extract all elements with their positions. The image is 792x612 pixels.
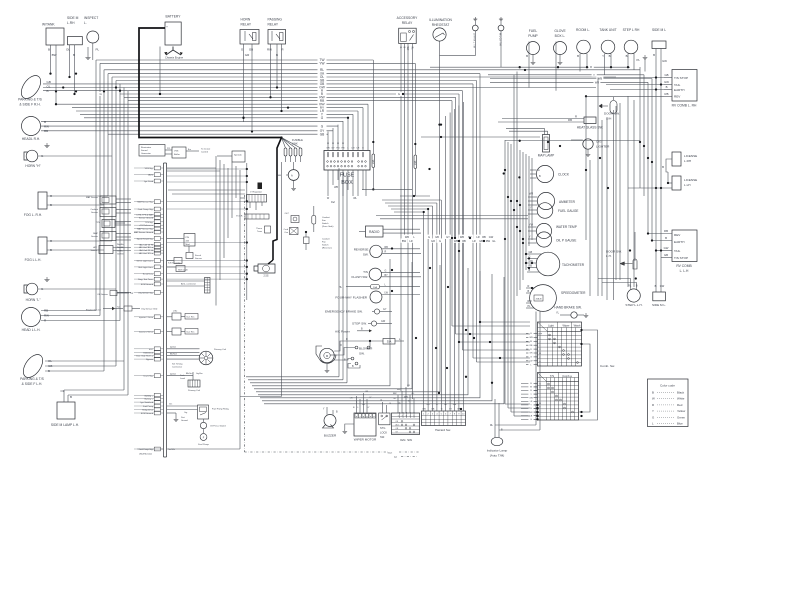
svg-text:Black: Black (677, 391, 685, 395)
side marker lamp RH top (66, 16, 82, 95)
svg-text:STEP L RH: STEP L RH (623, 28, 640, 32)
svg-text:SIDE M L.: SIDE M L. (652, 303, 666, 307)
wire top bus (41, 58, 640, 137)
junction dots left staircase (55, 72, 121, 92)
svg-text:Chassis Engine: Chassis Engine (165, 56, 184, 60)
svg-text:20A: 20A (372, 159, 375, 164)
svg-text:B: B (652, 391, 654, 395)
svg-text:FOG L L.H.: FOG L L.H. (25, 258, 42, 262)
svg-text:RB: RB (385, 246, 389, 249)
svg-text:Indicator Lamp: Indicator Lamp (487, 449, 508, 453)
svg-text:W: W (530, 341, 532, 343)
svg-text:R: R (575, 115, 577, 119)
svg-text:Blk/Grn: Blk/Grn (186, 372, 192, 375)
wire fuse box bottom pins (327, 170, 366, 204)
svg-text:G: G (398, 92, 400, 96)
svg-text:Inj 1 Res: Inj 1 Res (187, 317, 195, 319)
svg-text:GmWht: GmWht (117, 253, 124, 256)
svg-text:SIDE M: SIDE M (67, 16, 79, 20)
blower fuse 30A (369, 338, 404, 348)
svg-text:SW.: SW. (359, 352, 365, 356)
svg-text:Fuel Pump Relay: Fuel Pump Relay (212, 409, 230, 411)
svg-text:Wiper: Wiper (562, 324, 569, 328)
svg-text:2.5S: 2.5S (264, 275, 269, 278)
svg-text:Grn: Grn (169, 403, 172, 406)
svg-text:G: G (538, 169, 540, 172)
svg-text:W: W (652, 397, 655, 401)
svg-text:LR: LR (409, 239, 412, 243)
svg-text:REV: REV (674, 95, 681, 99)
wire thick starter feed (273, 138, 282, 261)
svg-text:GW: GW (664, 80, 669, 84)
svg-text:CTRL TPS & MAT: CTRL TPS & MAT (136, 214, 153, 217)
svg-text:GW: GW (660, 284, 665, 288)
svg-text:WATER TEMP: WATER TEMP (556, 225, 577, 229)
combination switch table lower (530, 373, 579, 421)
knock module (167, 234, 195, 253)
svg-text:LICENSE: LICENSE (684, 178, 697, 182)
svg-text:B: B (662, 165, 664, 169)
svg-text:LICENSE: LICENSE (684, 154, 697, 158)
svg-text:Lead: Lead (180, 378, 186, 380)
svg-text:RB: RB (664, 229, 668, 233)
svg-text:& SIDE F L.H.: & SIDE F L.H. (22, 382, 43, 386)
svg-text:GY: GY (449, 409, 453, 411)
horn H (24, 143, 112, 168)
svg-text:HEADL R.H.: HEADL R.H. (22, 137, 40, 141)
svg-text:Dist. Gnd. Ref. Lo: Dist. Gnd. Ref. Lo (136, 355, 153, 358)
oil pressure sender top small (440, 17, 479, 56)
svg-text:FLASH SW.: FLASH SW. (351, 275, 368, 279)
accessory relay (397, 16, 418, 44)
passing relay (267, 18, 285, 113)
blower motor (316, 346, 336, 372)
svg-text:GY: GY (446, 235, 450, 239)
svg-text:FOUR-WAY FLASHER: FOUR-WAY FLASHER (335, 295, 367, 299)
svg-text:Org: Org (184, 411, 187, 414)
svg-text:Knock: Knock (195, 255, 202, 257)
svg-text:V. Regulator: V. Regulator (250, 191, 262, 194)
wire accessory columns (399, 44, 413, 400)
AC power lead (335, 327, 372, 333)
reverse switch (354, 245, 421, 257)
svg-text:Color code: Color code (660, 384, 675, 388)
svg-text:IGN. SW: IGN. SW (400, 438, 412, 442)
svg-text:GB: GB (479, 239, 483, 243)
svg-text:SIDE M L: SIDE M L (652, 28, 666, 32)
svg-text:Engine Ground: Engine Ground (86, 308, 101, 311)
svg-text:Cool. Temp. Sig.: Cool. Temp. Sig. (138, 209, 154, 211)
svg-text:OIL P GAUGE: OIL P GAUGE (556, 239, 576, 243)
room lamp (576, 28, 590, 72)
ECM ground symbol (167, 413, 188, 422)
svg-text:Wash: Wash (574, 324, 581, 328)
turn signal flasher switch (351, 268, 421, 280)
svg-text:Illuminator: Illuminator (141, 146, 151, 149)
svg-text:BLOWER: BLOWER (359, 347, 373, 351)
svg-text:Sound: Sound (141, 150, 148, 152)
svg-text:(Wall Monitor): (Wall Monitor) (139, 453, 152, 456)
svg-text:LR: LR (357, 148, 360, 150)
svg-text:FUSIBLE: FUSIBLE (292, 138, 303, 142)
illumination rheostat (429, 18, 452, 237)
svg-text:RW: RW (44, 124, 49, 128)
svg-text:GB: GB (529, 251, 533, 254)
svg-text:LOCK: LOCK (380, 431, 387, 435)
wire comb switch lower feeders (246, 259, 504, 404)
svg-text:S/PARK L T/M: S/PARK L T/M (473, 33, 476, 48)
fuel pump top (526, 29, 539, 88)
svg-text:RB: RB (462, 239, 466, 243)
lamp parking/ts/side front RH (17, 72, 50, 106)
svg-text:GB: GB (249, 48, 253, 52)
TES box (258, 183, 263, 190)
svg-text:TAIL: TAIL (674, 83, 681, 87)
svg-text:HAND BRAKE SW.: HAND BRAKE SW. (554, 306, 582, 310)
svg-text:Primary Coil: Primary Coil (188, 389, 200, 392)
svg-text:G: G (100, 92, 102, 96)
svg-text:Shift Light Cont.: Shift Light Cont. (138, 266, 153, 269)
svg-text:A/C Power: A/C Power (335, 330, 350, 334)
svg-text:B: B (609, 54, 611, 58)
side marker lamp top right (652, 28, 667, 292)
tachometer (527, 251, 585, 276)
svg-text:RW: RW (267, 48, 272, 52)
set timing connector (172, 363, 186, 381)
svg-text:YW: YW (319, 62, 324, 66)
svg-text:RW: RW (528, 300, 533, 303)
svg-text:WR: WR (529, 193, 533, 196)
ECM pin boxes and labels (134, 166, 164, 455)
svg-text:Relay Drive: Relay Drive (142, 409, 154, 412)
svg-text:BW: BW (52, 53, 57, 57)
svg-text:L.: L. (84, 21, 87, 25)
svg-text:DOOR SW.: DOOR SW. (604, 112, 620, 116)
wire battery thick feed (139, 28, 282, 138)
oxygen sensor (97, 291, 133, 296)
svg-text:TACHOMETER: TACHOMETER (562, 263, 585, 267)
svg-text:Sensor: Sensor (91, 235, 98, 238)
svg-text:RL: RL (628, 283, 632, 287)
wire ECM collector vertical (167, 163, 248, 300)
svg-text:Fuel Pump Sig.: Fuel Pump Sig. (139, 449, 154, 451)
svg-text:Sensor Ground: Sensor Ground (139, 217, 154, 220)
svg-text:Oxy Sensor Sig.: Oxy Sensor Sig. (138, 291, 153, 294)
svg-text:B: B (47, 89, 49, 93)
fuel pump sig wire (137, 448, 240, 451)
ammeter (528, 192, 576, 209)
svg-text:RB: RB (568, 118, 572, 122)
svg-text:RELAY: RELAY (268, 23, 279, 27)
svg-text:STOP SW.: STOP SW. (352, 322, 367, 326)
door switch LH (606, 232, 637, 269)
svg-text:(Reverse): (Reverse) (322, 247, 332, 250)
wire speedometer drop (495, 312, 540, 431)
svg-text:GLOVE: GLOVE (554, 29, 566, 33)
fusible link 20A fuse right of fuse box (372, 60, 375, 191)
svg-text:REV: REV (674, 233, 681, 237)
svg-text:Crank Sig.: Crank Sig. (143, 375, 153, 378)
svg-text:L.RH: L.RH (684, 159, 691, 163)
svg-text:WB: WB (334, 186, 338, 189)
svg-text:GB: GB (431, 409, 435, 411)
svg-text:RADIO: RADIO (369, 230, 380, 234)
svg-text:L.RH: L.RH (67, 21, 75, 25)
oil pressure gauge (528, 232, 576, 247)
svg-text:Brn: Brn (188, 148, 191, 151)
svg-text:Dist.: Dist. (181, 416, 185, 419)
svg-text:B: B (50, 248, 52, 252)
wire center columns from bus (382, 102, 463, 411)
svg-text:SW.: SW. (363, 252, 369, 256)
buzzer (323, 407, 339, 438)
svg-text:EARTH: EARTH (674, 88, 684, 92)
svg-text:VSS Sig.: VSS Sig. (145, 168, 154, 170)
svg-text:GL: GL (492, 239, 496, 243)
svg-text:IAC Coil "A" Hi: IAC Coil "A" Hi (139, 243, 153, 246)
svg-text:T/S STOP: T/S STOP (674, 256, 688, 260)
VSS buffer (165, 147, 211, 158)
speedometer (526, 285, 586, 312)
svg-text:IAC Coil "B" Lo: IAC Coil "B" Lo (139, 252, 154, 255)
svg-text:OL: OL (61, 389, 65, 393)
svg-text:PG: PG (336, 148, 339, 150)
svg-text:S.E.S. Light Cont.: S.E.S. Light Cont. (136, 260, 153, 263)
svg-text:MAP LAMP: MAP LAMP (538, 154, 554, 158)
svg-text:White: White (677, 397, 685, 401)
svg-text:W/TANK: W/TANK (42, 23, 55, 27)
svg-text:WR: WR (595, 80, 599, 84)
svg-text:MAP: MAP (93, 232, 98, 235)
horn L (24, 277, 116, 302)
svg-text:GW: GW (664, 246, 669, 250)
starter motor (254, 260, 275, 278)
svg-text:EARTH: EARTH (674, 240, 684, 244)
shift light (167, 266, 188, 272)
svg-text:Bypass: Bypass (146, 359, 153, 361)
svg-text:MAT Sensor Sig.: MAT Sensor Sig. (137, 201, 153, 204)
battery (165, 15, 181, 46)
svg-text:Set Timing: Set Timing (172, 363, 183, 366)
svg-text:Y: Y (593, 73, 595, 77)
water temp gauge (528, 223, 577, 238)
svg-text:GY: GY (383, 308, 387, 311)
svg-text:FUEL GAUGE: FUEL GAUGE (558, 209, 578, 213)
svg-text:HEAD L L.H.: HEAD L L.H. (22, 328, 41, 332)
fuel pump relay (167, 403, 230, 420)
wire gauge-to-comb verticals (505, 300, 530, 416)
svg-text:Control: Control (201, 151, 209, 154)
svg-text:B: B (276, 53, 278, 57)
svg-text:Buffer: Buffer (174, 153, 180, 156)
svg-text:L.LH: L.LH (684, 183, 691, 187)
EGR connector (236, 214, 269, 219)
svg-text:W/L CD T/M: W/L CD T/M (498, 33, 500, 46)
radio (359, 226, 421, 237)
svg-text:Ign. Feed: Ign. Feed (144, 181, 154, 183)
MAT sensor (86, 196, 131, 204)
wire mid horizontals (362, 65, 652, 219)
svg-text:INSPECT: INSPECT (84, 16, 98, 20)
coolant sensor (90, 208, 131, 217)
svg-text:AMMETER: AMMETER (559, 200, 576, 204)
wire label row near hazard (401, 235, 498, 243)
alternator (278, 162, 299, 190)
color code legend (648, 379, 689, 427)
indicator lamp auto TM (487, 399, 508, 458)
svg-text:VSS: VSS (174, 151, 179, 153)
blower switch (334, 338, 383, 368)
svg-text:ACCESSORY: ACCESSORY (397, 16, 418, 20)
svg-text:G: G (439, 239, 441, 243)
speedo pickup (217, 151, 245, 162)
svg-text:20A: 20A (373, 286, 377, 289)
svg-text:GB: GB (48, 364, 52, 368)
svg-text:OE Sensor: OE Sensor (97, 293, 108, 296)
svg-text:Shift Light: Shift Light (178, 269, 188, 272)
combination switch table upper (526, 322, 582, 367)
svg-text:GB: GB (664, 73, 668, 77)
license lamp RH (662, 152, 697, 172)
coolant fan switch face side (312, 206, 334, 232)
thermal transmitter (256, 226, 270, 233)
svg-text:Trans: Trans (257, 231, 262, 233)
svg-text:B: B (50, 203, 52, 207)
heat glass switch (498, 115, 603, 130)
svg-text:STEP L.L.H.: STEP L.L.H. (625, 303, 642, 307)
svg-text:RELAY: RELAY (241, 23, 252, 27)
svg-text:GR: GR (431, 239, 435, 243)
fog lamp LH (25, 237, 112, 262)
svg-text:Hazard Sw.: Hazard Sw. (435, 428, 451, 432)
ALDL connector (167, 278, 210, 294)
step lamp LH bottom right (598, 277, 643, 306)
svg-text:R: R (652, 403, 654, 407)
svg-text:TPS Sig.: TPS Sig. (145, 222, 154, 224)
svg-text:VATS: VATS (148, 174, 154, 177)
crank signal wire (167, 373, 193, 376)
fuel pump bottom (198, 434, 209, 446)
svg-text:Fuel Pump: Fuel Pump (198, 444, 209, 446)
wire fuse box top pins (326, 104, 368, 150)
svg-text:B: B (655, 284, 657, 288)
fuse 20A flasher row (339, 283, 420, 289)
svg-text:SPEEDOMETER: SPEEDOMETER (561, 291, 586, 295)
svg-text:A/CL connector: A/CL connector (181, 283, 196, 286)
svg-text:PARKING & T/S: PARKING & T/S (18, 98, 42, 102)
svg-text:B: B (48, 369, 50, 373)
svg-text:Yellow: Yellow (677, 409, 686, 413)
TPS sensor (96, 220, 131, 228)
svg-text:LW: LW (530, 361, 533, 363)
svg-text:MAP Sensor Sig.: MAP Sensor Sig. (137, 228, 153, 231)
svg-text:R: R (528, 285, 530, 288)
junction dots scatter (159, 69, 653, 417)
svg-text:RELAY: RELAY (402, 21, 413, 25)
stop switch (352, 320, 392, 326)
svg-text:YW: YW (529, 224, 534, 227)
svg-text:+5V Reference: +5V Reference (139, 224, 154, 227)
svg-text:A: A (291, 174, 293, 178)
svg-text:TAIL: TAIL (674, 249, 681, 253)
svg-text:REVERSE: REVERSE (354, 247, 369, 251)
svg-text:PPL: PPL (167, 148, 170, 150)
coolant fan switch reverse (304, 231, 332, 250)
voltage regulator (247, 191, 267, 211)
svg-text:Coolant: Coolant (322, 216, 330, 219)
svg-text:BW: BW (402, 239, 407, 243)
svg-text:WIPER MOTOR: WIPER MOTOR (354, 438, 377, 442)
svg-text:ROOM L.: ROOM L. (576, 28, 590, 32)
svg-text:CLOCK: CLOCK (558, 173, 570, 177)
svg-text:Primary Coil: Primary Coil (214, 348, 226, 351)
svg-text:Coolant: Coolant (90, 208, 98, 211)
rear combination lamp RH (664, 70, 697, 108)
svg-text:TW: TW (130, 293, 133, 295)
lamp parking/ts/side front LH (19, 351, 124, 386)
svg-text:Ign. Switched: Ign. Switched (141, 401, 154, 404)
wire left vertical feeders (96, 60, 128, 395)
svg-text:B: B (636, 283, 638, 287)
ECM connector rail (164, 163, 167, 457)
svg-text:Generator: Generator (141, 152, 151, 155)
ignition coil (186, 372, 203, 392)
svg-text:Oxy Sensor Grid: Oxy Sensor Grid (141, 308, 158, 311)
svg-text:+: + (166, 25, 168, 29)
svg-text:B: B (577, 54, 579, 58)
svg-text:Switch: Switch (322, 222, 329, 225)
svg-text:SIDE M LAMP L.H.: SIDE M LAMP L.H. (51, 423, 79, 427)
fusible link cluster (280, 136, 303, 162)
svg-text:G: G (399, 47, 401, 49)
svg-text:BATTERY: BATTERY (166, 15, 182, 19)
wire door harness verticals (586, 78, 614, 301)
washer tank W/TANK (42, 23, 64, 106)
wire comb lower table stubs (521, 381, 539, 421)
svg-text:Reference: Reference (143, 351, 153, 354)
illuminator sound generator (139, 145, 165, 157)
svg-text:WovBlk: WovBlk (117, 247, 123, 249)
svg-text:LR: LR (472, 239, 475, 243)
svg-text:FUEL: FUEL (529, 29, 538, 33)
svg-text:B: B (73, 53, 75, 57)
svg-text:B: B (666, 85, 668, 89)
cigarette lighter (571, 139, 610, 156)
svg-text:30A: 30A (387, 340, 392, 344)
wire center columns comb side (452, 74, 530, 362)
svg-text:B: B (48, 48, 50, 52)
svg-text:GY: GY (331, 148, 335, 150)
svg-text:Coolant: Coolant (322, 238, 330, 241)
svg-text:GR: GR (326, 148, 330, 150)
svg-text:HORN "L": HORN "L" (26, 298, 42, 302)
svg-text:Comb. Sw.: Comb. Sw. (600, 364, 615, 368)
svg-text:Def: Def (331, 201, 335, 204)
distributor (167, 346, 226, 365)
svg-text:Gry/Grn: Gry/Grn (196, 372, 203, 375)
wire starter branch left L (240, 162, 282, 397)
door switch RH (599, 97, 620, 121)
svg-text:CIG: CIG (596, 140, 602, 144)
ignition switch table (392, 385, 420, 442)
svg-text:Tan/Wht: Tan/Wht (168, 448, 175, 451)
cab boundary dash line horizontal (245, 451, 421, 458)
svg-text:Therm: Therm (256, 228, 262, 230)
svg-text:SW.: SW. (380, 435, 385, 439)
svg-text:WB: WB (454, 239, 458, 243)
fuel gauge (528, 203, 578, 219)
svg-text:MAP Sensor Ground: MAP Sensor Ground (134, 231, 154, 234)
